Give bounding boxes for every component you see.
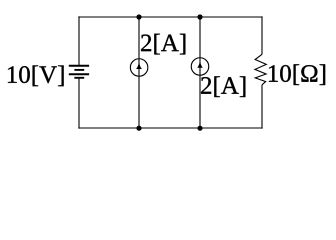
wire bottom rail bbox=[78, 127, 262, 129]
current source I1 arrow bbox=[136, 62, 142, 69]
current source I2 arrow bbox=[197, 61, 203, 68]
battery V1 plates bbox=[69, 66, 89, 78]
resistor R1 zigzag bbox=[255, 54, 266, 85]
wire left branch lower bbox=[78, 78, 80, 129]
label 10[Ohm] bbox=[269, 64, 325, 85]
current source I1 circle bbox=[130, 59, 148, 77]
wire top rail bbox=[78, 16, 262, 18]
label 10[V] bbox=[8, 65, 64, 86]
wire right branch lower bbox=[261, 85, 263, 129]
wire left branch upper bbox=[78, 16, 80, 65]
junction node top-right dot bbox=[197, 14, 202, 19]
junction node bottom-right dot bbox=[197, 126, 202, 131]
junction node bottom-left dot bbox=[136, 126, 141, 131]
wire right branch upper bbox=[261, 16, 263, 54]
label 2[A] bottom bbox=[201, 76, 245, 97]
junction node top-left dot bbox=[136, 14, 141, 19]
current source I2 circle bbox=[191, 58, 209, 76]
wire middle branch 1 bbox=[138, 16, 140, 128]
wire middle branch 2 bbox=[199, 16, 201, 128]
label 2[A] top bbox=[141, 34, 185, 55]
